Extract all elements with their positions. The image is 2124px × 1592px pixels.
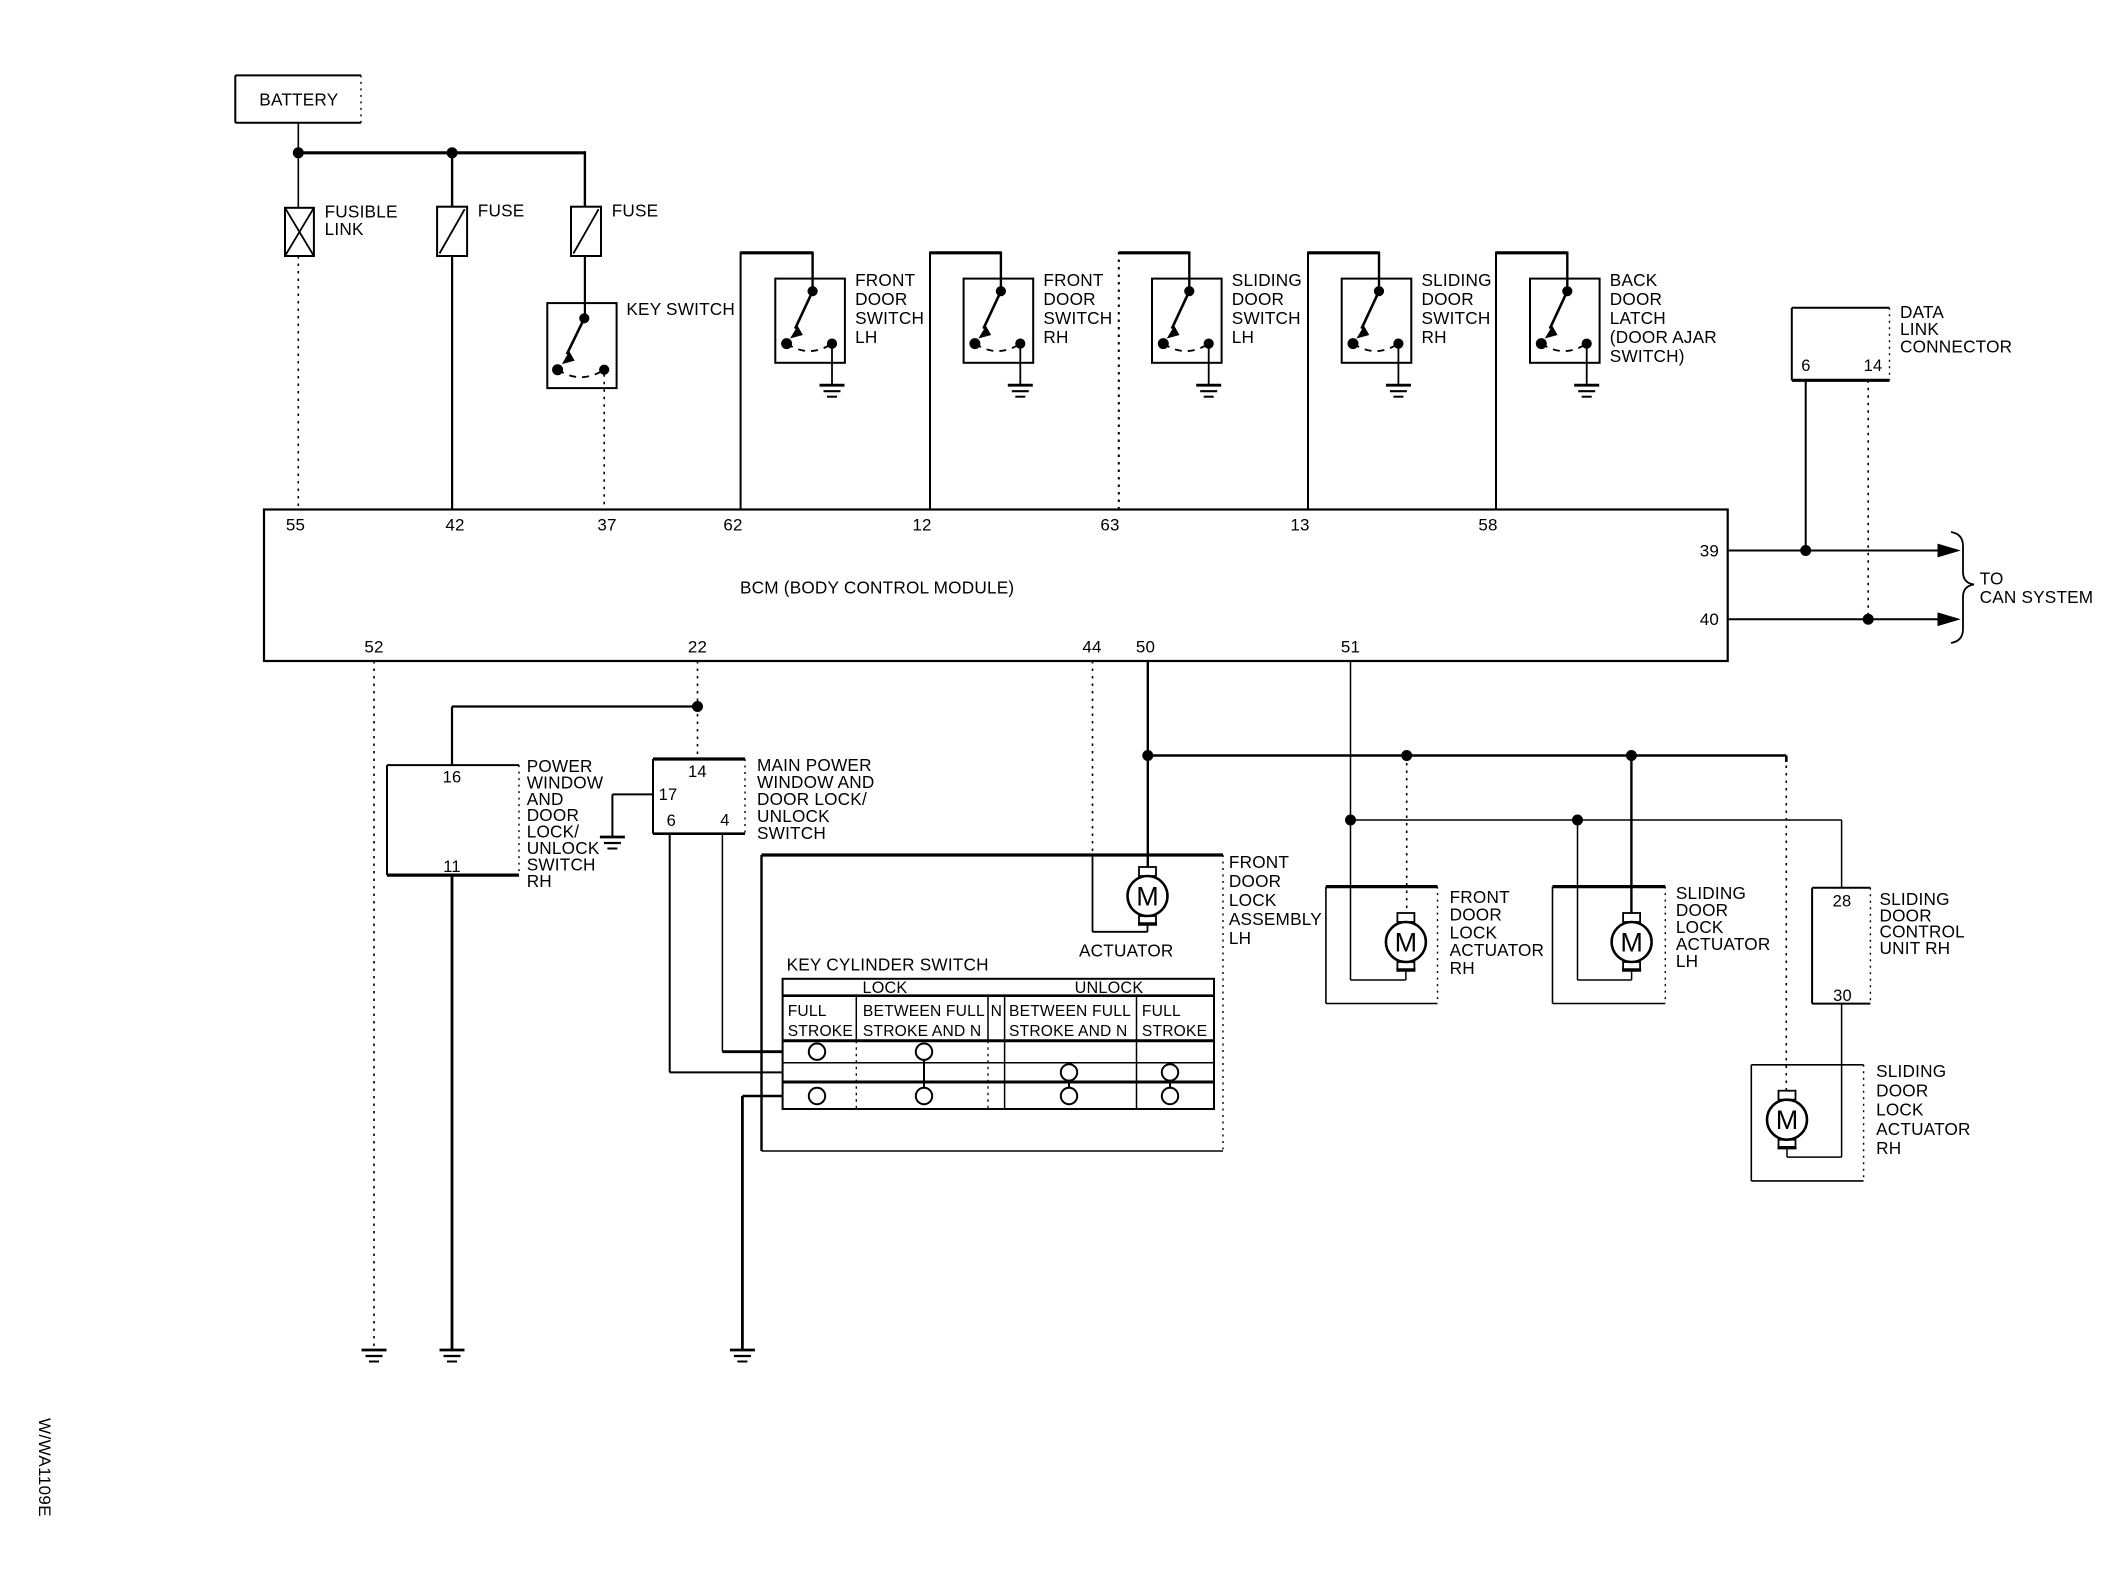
wire battery to bus	[297, 123, 299, 152]
svg-text:58: 58	[1478, 516, 1497, 535]
wire bus to fuse F2	[584, 151, 586, 207]
svg-text:SLIDING: SLIDING	[1876, 1061, 1946, 1081]
wire front door switch RH to ground	[1019, 344, 1021, 386]
wire front door switch LH to ground	[831, 344, 833, 386]
svg-text:DOOR: DOOR	[1876, 1080, 1928, 1100]
label front door lock assembly LH	[1229, 852, 1322, 948]
svg-text:DOOR: DOOR	[1232, 289, 1284, 309]
ground G3	[600, 837, 625, 849]
svg-text:12: 12	[912, 516, 931, 535]
label sliding door lock actuator RH	[1876, 1061, 1971, 1158]
svg-text:FRONT: FRONT	[1229, 852, 1289, 872]
svg-text:LOCK: LOCK	[1229, 890, 1277, 910]
svg-text:STROKE AND N: STROKE AND N	[863, 1023, 982, 1040]
svg-text:(DOOR AJAR: (DOOR AJAR	[1610, 327, 1717, 347]
svg-text:DOOR: DOOR	[1422, 289, 1474, 309]
sliding door lock actuator RH box	[1751, 1065, 1863, 1181]
svg-text:N: N	[991, 1003, 1002, 1020]
label data link connector	[1900, 302, 2012, 356]
node DLC14 junction	[1863, 614, 1873, 624]
node line1 pin50 tap	[1143, 751, 1153, 761]
svg-text:DOOR: DOOR	[1229, 871, 1281, 891]
wire sliding door switch RH to ground	[1397, 344, 1399, 386]
svg-text:SLIDING: SLIDING	[1422, 270, 1492, 290]
wire pin 4 to key cylinder row A	[722, 834, 782, 1052]
node pin22 junction	[693, 702, 703, 712]
wire sliding door switch LH to ground	[1208, 344, 1210, 386]
wire bus to fuse F1	[451, 153, 453, 207]
svg-text:62: 62	[723, 516, 742, 535]
svg-text:DOOR: DOOR	[855, 289, 907, 309]
svg-text:50: 50	[1136, 638, 1155, 657]
svg-text:STROKE: STROKE	[1142, 1023, 1207, 1040]
wire BCM pin 50 to actuator motor	[1147, 661, 1149, 867]
svg-text:13: 13	[1290, 516, 1309, 535]
power window and door lock/unlock switch RH	[387, 765, 519, 876]
svg-text:14: 14	[688, 763, 707, 781]
svg-text:11: 11	[443, 858, 461, 876]
label back door latch switch	[1610, 270, 1717, 366]
wire junction to power window switch RH	[452, 707, 698, 766]
wire line1 tap to front RH motor (dotted)	[1406, 756, 1408, 914]
svg-text:M: M	[1620, 928, 1643, 958]
connector col4	[1068, 1081, 1070, 1088]
node DLC6 junction	[1801, 546, 1811, 556]
key cylinder switch table	[783, 979, 1214, 1109]
svg-text:FUSE: FUSE	[612, 201, 659, 221]
wire back door latch switch to ground	[1586, 344, 1588, 386]
wire sliding LH motor top stub	[1630, 863, 1632, 913]
wire line1 tap to sliding LH motor	[1630, 756, 1632, 864]
wire bus to fusible link	[297, 153, 299, 208]
svg-text:FULL: FULL	[788, 1003, 827, 1020]
svg-text:RH: RH	[527, 871, 552, 891]
wire BCM pin to front door switch RH	[930, 252, 1001, 510]
svg-text:SLIDING: SLIDING	[1232, 270, 1302, 290]
svg-text:KEY SWITCH: KEY SWITCH	[626, 299, 735, 319]
node line2 pin51 tap	[1346, 815, 1356, 825]
label front door switch LH	[855, 270, 924, 347]
wire BCM pin to sliding door switch RH	[1308, 252, 1379, 510]
wire pin 17 to ground	[612, 794, 653, 837]
svg-text:FULL: FULL	[1142, 1003, 1181, 1020]
data link connector	[1792, 308, 1890, 381]
svg-text:RH: RH	[1043, 327, 1068, 347]
wire junction to main power switch pin 14	[697, 707, 699, 760]
contact circle C2	[916, 1088, 932, 1104]
wire pin 11 to ground	[451, 875, 454, 1349]
wire fusible link to BCM pin 55	[297, 256, 299, 510]
arrow CAN-H	[1938, 544, 1959, 556]
wire lock bus line 2	[1351, 819, 1842, 821]
svg-text:LINK: LINK	[325, 219, 364, 239]
fusible link	[285, 208, 314, 256]
wire key cylinder row C to ground	[742, 1096, 782, 1350]
svg-text:SWITCH): SWITCH)	[1610, 346, 1685, 366]
wire key switch to BCM pin 37	[603, 374, 605, 509]
ground under front door switch RH	[1008, 385, 1033, 397]
wire BCM pin 22 down	[697, 661, 699, 707]
svg-text:LATCH: LATCH	[1610, 308, 1666, 328]
wire fuse F2 to key switch	[584, 256, 586, 318]
svg-text:BCM (BODY CONTROL MODULE): BCM (BODY CONTROL MODULE)	[740, 578, 1014, 598]
motor M actuator	[1128, 867, 1168, 924]
svg-text:39: 39	[1700, 542, 1719, 561]
motor M sliding door lock actuator LH	[1612, 913, 1652, 970]
svg-text:6: 6	[667, 812, 676, 830]
svg-text:RH: RH	[1450, 958, 1475, 978]
wire DLC pin 6 to CAN H	[1805, 380, 1807, 550]
svg-text:RH: RH	[1876, 1138, 1901, 1158]
wire pin51 through front RH actuator	[1351, 820, 1406, 980]
label sliding door switch LH	[1232, 270, 1302, 347]
svg-text:6: 6	[1801, 357, 1810, 375]
ground G1	[362, 1350, 387, 1362]
fuse F2	[571, 207, 601, 256]
wire BCM pin to front door switch LH	[741, 252, 813, 510]
svg-text:14: 14	[1864, 357, 1883, 375]
contact circle A1	[809, 1044, 825, 1060]
node bus junction B	[447, 148, 457, 158]
svg-text:M: M	[1395, 928, 1418, 958]
svg-text:52: 52	[364, 638, 383, 657]
svg-text:LH: LH	[1232, 327, 1254, 347]
wire BCM pin to sliding door switch LH	[1119, 252, 1190, 510]
wire control unit pin 30 to sliding RH motor	[1787, 1004, 1842, 1158]
front door lock assembly LH box	[762, 855, 1224, 1151]
label sliding door lock actuator LH	[1676, 883, 1771, 971]
svg-text:BACK: BACK	[1610, 270, 1658, 290]
contact circle B4	[1061, 1064, 1077, 1080]
door switch sliding door switch LH	[1152, 279, 1222, 363]
node line2 sliding LH tap	[1573, 815, 1583, 825]
ground under back door latch switch	[1574, 385, 1599, 397]
svg-text:40: 40	[1700, 610, 1719, 629]
label fusible link	[325, 202, 398, 240]
svg-text:BATTERY: BATTERY	[259, 90, 338, 110]
svg-text:63: 63	[1100, 516, 1119, 535]
front door lock actuator RH box	[1326, 887, 1438, 1004]
wire line1 dotted drop to sliding RH motor	[1785, 758, 1787, 1091]
contact circle C4	[1061, 1088, 1077, 1104]
svg-text:ACTUATOR: ACTUATOR	[1079, 941, 1174, 961]
battery	[235, 75, 361, 122]
contact circle C1	[809, 1088, 825, 1104]
label sliding door switch RH	[1422, 270, 1492, 347]
wire line2 to control unit pin 28	[1841, 820, 1843, 888]
wire lock bus line 1	[1148, 756, 1787, 763]
svg-text:FRONT: FRONT	[855, 270, 915, 290]
sliding door lock actuator LH box	[1553, 887, 1666, 1004]
svg-text:LH: LH	[1229, 928, 1251, 948]
motor M front door lock actuator RH	[1386, 913, 1426, 970]
wire BCM pin to back door latch switch	[1496, 252, 1567, 510]
label power window switch RH	[527, 756, 604, 891]
contact circle B5	[1162, 1064, 1178, 1080]
wire BCM pin 40 CAN-L	[1728, 618, 1944, 620]
ground G4	[730, 1350, 755, 1362]
svg-text:55: 55	[286, 516, 305, 535]
door switch back door latch switch	[1530, 279, 1600, 363]
ground G2	[440, 1350, 465, 1362]
contact circle C5	[1162, 1088, 1178, 1104]
fuse F1	[437, 207, 467, 256]
svg-text:LH: LH	[855, 327, 877, 347]
wire sliding LH motor bottom to line2	[1578, 820, 1632, 980]
brace to CAN system	[1951, 532, 1974, 643]
svg-text:UNLOCK: UNLOCK	[1075, 979, 1144, 997]
svg-text:DOOR: DOOR	[1610, 289, 1662, 309]
svg-text:KEY CYLINDER SWITCH: KEY CYLINDER SWITCH	[787, 955, 989, 975]
svg-text:RH: RH	[1422, 327, 1447, 347]
svg-text:17: 17	[659, 786, 678, 804]
main power window and door lock/unlock switch	[653, 759, 745, 834]
svg-text:STROKE: STROKE	[788, 1023, 853, 1040]
svg-text:22: 22	[688, 638, 707, 657]
label to CAN system	[1980, 569, 2094, 607]
svg-text:SWITCH: SWITCH	[757, 823, 826, 843]
key switch	[547, 303, 616, 388]
svg-text:4: 4	[720, 811, 729, 829]
ground under front door switch LH	[820, 385, 845, 397]
svg-text:BETWEEN FULL: BETWEEN FULL	[863, 1003, 985, 1020]
svg-text:BETWEEN FULL: BETWEEN FULL	[1009, 1003, 1131, 1020]
svg-text:37: 37	[597, 516, 616, 535]
svg-text:SWITCH: SWITCH	[1422, 308, 1491, 328]
svg-text:42: 42	[445, 516, 464, 535]
BCM (body control module)	[264, 510, 1728, 662]
arrow CAN-L	[1938, 613, 1959, 625]
svg-text:51: 51	[1341, 638, 1360, 657]
svg-text:M: M	[1136, 882, 1159, 912]
wire BCM pin 52 to ground	[373, 661, 375, 1350]
door switch sliding door switch RH	[1342, 279, 1412, 363]
svg-text:ACTUATOR: ACTUATOR	[1876, 1119, 1971, 1139]
wire pin 6 to key cylinder row B	[670, 834, 783, 1073]
svg-text:UNIT RH: UNIT RH	[1880, 938, 1951, 958]
wire battery bus	[298, 151, 585, 154]
table column headers	[788, 1003, 1208, 1040]
svg-text:DOOR: DOOR	[1043, 289, 1095, 309]
node line1 sliding LH tap	[1626, 751, 1636, 761]
svg-text:FUSE: FUSE	[478, 201, 525, 221]
svg-text:LOCK: LOCK	[1876, 1100, 1924, 1120]
svg-text:28: 28	[1833, 893, 1852, 911]
connector col2	[923, 1060, 925, 1088]
label front door lock actuator RH	[1450, 887, 1545, 978]
ground under sliding door switch LH	[1196, 385, 1221, 397]
wire fuse F1 to BCM pin 42	[451, 256, 453, 510]
node line1 front RH tap	[1402, 751, 1412, 761]
motor M sliding door lock actuator RH	[1767, 1091, 1807, 1148]
node bus junction A	[293, 148, 303, 158]
svg-text:TO: TO	[1980, 569, 2004, 589]
svg-text:SWITCH: SWITCH	[1043, 308, 1112, 328]
contact circle A2	[916, 1044, 932, 1060]
svg-text:FRONT: FRONT	[1043, 270, 1103, 290]
wire BCM pin 39 CAN-H	[1728, 550, 1944, 552]
door switch front door switch RH	[964, 279, 1034, 363]
label main power switch	[757, 755, 875, 843]
svg-text:W/WA1109E: W/WA1109E	[35, 1418, 54, 1517]
ground under sliding door switch RH	[1386, 385, 1411, 397]
label front door switch RH	[1043, 270, 1112, 347]
svg-text:LOCK: LOCK	[863, 979, 908, 997]
svg-text:STROKE AND N: STROKE AND N	[1009, 1023, 1128, 1040]
svg-text:16: 16	[443, 768, 462, 786]
sliding door control unit RH	[1812, 888, 1870, 1005]
svg-text:ASSEMBLY: ASSEMBLY	[1229, 909, 1322, 929]
svg-text:LH: LH	[1676, 951, 1698, 971]
wire BCM pin 51 down	[1350, 661, 1352, 820]
svg-text:M: M	[1776, 1105, 1799, 1135]
connector col5	[1169, 1081, 1171, 1088]
svg-text:30: 30	[1833, 987, 1852, 1005]
svg-text:SWITCH: SWITCH	[855, 308, 924, 328]
label sliding door control unit RH	[1880, 889, 1965, 958]
wire DLC pin 14 to CAN L	[1867, 380, 1869, 619]
door switch front door switch LH	[775, 279, 845, 363]
svg-text:CONNECTOR: CONNECTOR	[1900, 336, 2012, 356]
svg-text:SWITCH: SWITCH	[1232, 308, 1301, 328]
svg-text:CAN SYSTEM: CAN SYSTEM	[1980, 587, 2094, 607]
wire BCM pin 44 to actuator motor (dotted above box)	[1093, 661, 1148, 932]
svg-text:44: 44	[1082, 638, 1101, 657]
